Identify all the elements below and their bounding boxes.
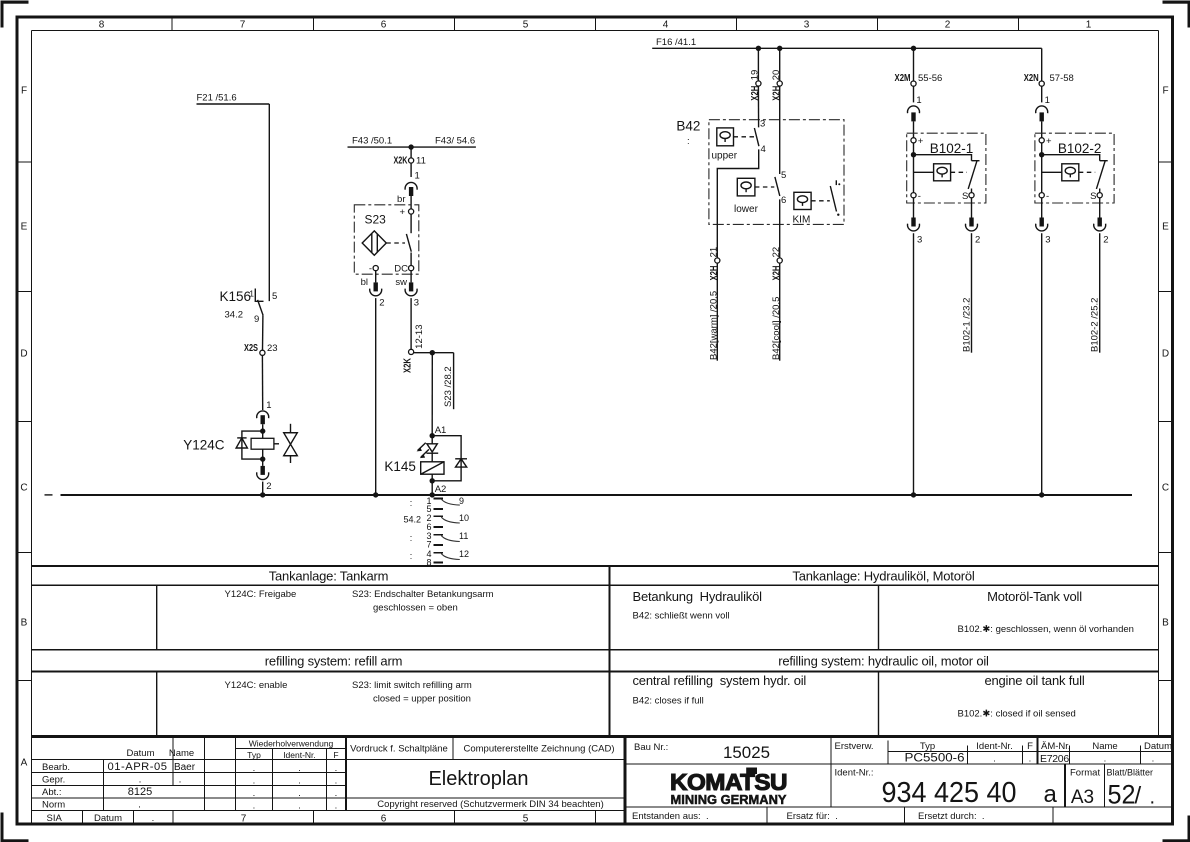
node on ground rail at S23: [373, 492, 378, 497]
solenoid coil Y124C: [183, 431, 279, 459]
svg-text:X2H: X2H: [771, 266, 782, 281]
wire X2K to node A1 branch: [414, 352, 454, 354]
bottom column numbers: [241, 814, 529, 825]
LED of K145: [417, 436, 439, 462]
svg-text:Typ: Typ: [247, 750, 261, 760]
svg-text:refilling system: refill arm: refilling system: refill arm: [265, 653, 402, 668]
left titleblock header texts: [127, 748, 195, 759]
english cell texts left: [225, 680, 472, 705]
svg-text:X2K: X2K: [394, 156, 409, 167]
svg-text:54.2: 54.2: [403, 515, 421, 525]
svg-text:C: C: [20, 483, 27, 494]
svg-text:S: S: [962, 191, 968, 202]
net stub S23/28.2: [443, 353, 454, 410]
wire node to K145 A1: [431, 353, 433, 436]
node K145 A1: [430, 425, 447, 439]
svg-text:Datum: Datum: [94, 813, 122, 824]
node Y124C A1: [260, 428, 265, 433]
svg-text:Wiederholverwendung: Wiederholverwendung: [249, 738, 334, 748]
wire X2H19 into box: [757, 86, 759, 127]
S23 enclosure dash-dot box: [354, 205, 419, 274]
net F21/51.6 source arrow: [197, 93, 270, 105]
svg-text:.: .: [335, 801, 338, 812]
socket pin 3 of B102-1: [907, 198, 922, 246]
svg-text:19: 19: [750, 70, 761, 81]
svg-text:7: 7: [426, 539, 431, 549]
svg-text:01-APR-05: 01-APR-05: [108, 761, 168, 773]
svg-text::: :: [410, 551, 413, 561]
ground rail: [60, 494, 1132, 496]
svg-text:11: 11: [416, 156, 426, 167]
svg-text:.: .: [1029, 754, 1032, 765]
svg-text:engine oil tank full: engine oil tank full: [984, 673, 1084, 688]
svg-text:KOMATSU: KOMATSU: [670, 769, 787, 795]
left row letters: [20, 86, 27, 769]
svg-text:D: D: [20, 349, 27, 360]
bottom margin band line: [32, 810, 626, 812]
S23 plus terminal: [399, 207, 413, 218]
trim mark bottom-right: [1163, 816, 1190, 842]
contact B42 upper 3-4: [754, 118, 765, 155]
svg-text:F: F: [1162, 86, 1168, 97]
svg-text:Y124C: enable: Y124C: enable: [225, 680, 288, 691]
node F16 X2M: [911, 46, 916, 51]
vordruck section: [350, 744, 614, 755]
svg-text:Datum: Datum: [1144, 741, 1172, 752]
svg-text:2: 2: [1103, 235, 1108, 246]
table verticals: [157, 566, 879, 737]
inner frame right: [1158, 31, 1160, 737]
svg-text:9: 9: [254, 314, 259, 325]
wire upper contact to X2H21: [717, 149, 758, 258]
contact B102-1 NC: [968, 161, 979, 193]
B102-2 S terminal: [1090, 191, 1102, 202]
float switch upper: [712, 128, 755, 162]
svg-text:21: 21: [709, 247, 720, 258]
svg-text:.: .: [298, 788, 301, 799]
svg-text:1: 1: [266, 400, 271, 411]
svg-text:4: 4: [761, 144, 766, 155]
svg-text:KIM: KIM: [793, 215, 811, 226]
svg-text:Gepr.: Gepr.: [42, 775, 65, 786]
relay coil K145: [384, 459, 444, 481]
svg-text:br: br: [397, 194, 405, 205]
wire X2S to Y124C plug: [261, 355, 263, 410]
svg-text:.: .: [1150, 787, 1156, 809]
trim mark bottom-left: [1, 813, 29, 842]
right row letters: [1162, 86, 1169, 629]
english cell texts right: [633, 673, 1085, 720]
svg-text:Ersatz für: .: Ersatz für: .: [787, 811, 838, 822]
svg-text:D: D: [1162, 349, 1169, 360]
svg-text:B42: schließt wenn voll: B42: schließt wenn voll: [633, 611, 730, 622]
svg-text:.: .: [1104, 754, 1107, 765]
svg-text:55-56: 55-56: [918, 73, 942, 84]
svg-text:.: .: [1152, 754, 1155, 765]
svg-text:F: F: [1027, 741, 1033, 752]
svg-text:3: 3: [917, 235, 922, 246]
svg-text:Vordruck f. Schaltpläne: Vordruck f. Schaltpläne: [350, 744, 448, 755]
svg-text:E7206: E7206: [1040, 753, 1069, 765]
svg-text:3: 3: [414, 298, 419, 309]
svg-text:2: 2: [266, 481, 271, 492]
connector X2K 12-13: [402, 324, 425, 373]
svg-text:.: .: [335, 788, 338, 799]
svg-text:Name: Name: [1092, 741, 1117, 752]
svg-text:central refilling system hydr: central refilling system hydr. oil: [633, 673, 807, 688]
svg-text:geschlossen = oben: geschlossen = oben: [373, 603, 458, 614]
svg-text:23: 23: [267, 343, 278, 354]
svg-text:B42[cool] /20.5: B42[cool] /20.5: [771, 297, 782, 360]
svg-text:B102.✱: geschlossen, wenn öl v: B102.✱: geschlossen, wenn öl vorhanden: [958, 624, 1134, 635]
node on ground rail at B102-2: [1039, 492, 1044, 497]
svg-text:B42: closes if full: B42: closes if full: [633, 696, 704, 707]
node on ground rail at Y124C: [260, 492, 265, 497]
top column numbers: [99, 20, 1092, 31]
connector X2S 23: [244, 343, 278, 356]
row values: [108, 761, 196, 810]
svg-text:Computererstellte Zeichnung (C: Computererstellte Zeichnung (CAD): [463, 744, 614, 755]
svg-text:K156: K156: [220, 289, 252, 304]
svg-text:.: .: [253, 763, 256, 774]
plug pin 1 of B102-2: [1036, 86, 1050, 138]
svg-text:12-13: 12-13: [414, 324, 425, 348]
svg-text:Tankanlage: Hydrauliköl, Motor: Tankanlage: Hydrauliköl, Motoröl: [792, 569, 975, 584]
svg-text:Ident-Nr.: Ident-Nr.: [976, 741, 1012, 752]
svg-text:S23 /28.2: S23 /28.2: [443, 366, 454, 407]
node F16 X2H20: [777, 46, 782, 51]
german cell texts left: [225, 589, 494, 614]
table header row 1: [32, 566, 1159, 585]
svg-text:57-58: 57-58: [1050, 73, 1074, 84]
svg-text:B102-1 /23.2: B102-1 /23.2: [961, 298, 972, 352]
node on ground rail at B102-1: [911, 492, 916, 497]
svg-text:.: .: [152, 813, 155, 824]
svg-text:F43/ 54.6: F43/ 54.6: [435, 136, 475, 147]
svg-text:B102-2 /25.2: B102-2 /25.2: [1090, 298, 1101, 352]
svg-text:refilling system: hydraulic oi: refilling system: hydraulic oil, motor o…: [778, 653, 989, 668]
connector X2M 55-56: [895, 73, 943, 86]
B42 enclosure dash-dot box: [709, 120, 844, 225]
svg-text:9: 9: [459, 496, 464, 506]
node K145 A2 on rail: [430, 481, 447, 498]
svg-text:Erstverw.: Erstverw.: [835, 741, 874, 752]
svg-text:20: 20: [771, 70, 782, 81]
svg-text:Betankung Hydrauliköl: Betankung Hydrauliköl: [633, 589, 763, 604]
bus F43: [348, 146, 476, 148]
wire B102-1 pin3 to ground rail: [913, 233, 915, 495]
svg-text:S23: Endschalter Betankungsarm: S23: Endschalter Betankungsarm: [352, 589, 494, 600]
TVS suppressor symbol right of Y124C: [284, 424, 298, 463]
plug pin 1 of S23: [405, 163, 420, 209]
level sensor element B102-2: [1042, 164, 1096, 181]
socket pin 2 of B102-1: [966, 198, 981, 246]
german cell texts right: [633, 589, 1134, 635]
SIA cells: [47, 811, 174, 824]
svg-text:X2H: X2H: [750, 86, 761, 101]
svg-text:.: .: [335, 776, 338, 787]
socket pin 3 of S23: [405, 271, 419, 309]
svg-text:.: .: [993, 754, 996, 765]
svg-text:Copyright reserved (Schutzverm: Copyright reserved (Schutzvermerk DIN 34…: [377, 799, 604, 810]
svg-text:Norm: Norm: [42, 800, 65, 811]
svg-text:sw: sw: [395, 277, 407, 288]
node F43 X2K: [408, 144, 413, 149]
svg-text:3: 3: [804, 20, 810, 31]
svg-text:F: F: [333, 750, 338, 760]
svg-text:a: a: [1044, 781, 1058, 808]
bau nr row: [634, 741, 1172, 765]
svg-text:.: .: [298, 801, 301, 812]
float switch lower: [734, 178, 774, 215]
wire F16 to X2H20: [779, 48, 781, 81]
svg-text:3: 3: [760, 118, 765, 129]
svg-text:-: -: [918, 191, 921, 202]
node at S23/28.2 branch: [430, 350, 435, 355]
svg-text:Abt.:: Abt.:: [42, 787, 62, 798]
wire F16 to X2H19: [757, 48, 759, 81]
svg-text:bl: bl: [361, 277, 368, 288]
svg-text:+: +: [399, 207, 405, 218]
svg-text:Motoröl-Tank voll: Motoröl-Tank voll: [987, 589, 1082, 604]
right titleblock grid: [625, 737, 1173, 825]
svg-text:X2H: X2H: [771, 86, 782, 101]
svg-text:A: A: [21, 758, 28, 769]
svg-text:B102.✱: closed if oil sensed: B102.✱: closed if oil sensed: [958, 709, 1076, 720]
svg-text:1: 1: [1086, 20, 1092, 31]
svg-text:Baer: Baer: [174, 762, 196, 773]
wire node to contact B102-1: [914, 155, 972, 161]
svg-text:Ident-Nr.:: Ident-Nr.:: [835, 768, 874, 779]
connector X2K 11: [394, 147, 426, 166]
svg-text:2: 2: [379, 298, 384, 309]
svg-text:-: -: [1046, 191, 1049, 202]
net stub B42[cool]/20.5: [771, 263, 782, 361]
net stub B42[warm]/20.5: [708, 263, 719, 361]
plug pin 1 of B102-1: [907, 86, 921, 138]
svg-text:A1: A1: [435, 425, 447, 436]
svg-text:X2H: X2H: [709, 266, 720, 281]
svg-text:5: 5: [523, 20, 529, 31]
svg-text:.: .: [138, 800, 141, 811]
node B102-2 internal: [1039, 143, 1044, 193]
svg-text:E: E: [21, 222, 28, 233]
bottom band ticks: [314, 811, 596, 824]
S23 switch contact: [406, 214, 411, 265]
svg-text:Blatt/Blätter: Blatt/Blätter: [1107, 768, 1154, 778]
svg-text:upper: upper: [712, 151, 738, 162]
svg-text:K145: K145: [384, 459, 416, 474]
float switch KIM: [793, 192, 830, 225]
svg-text:X2N: X2N: [1024, 73, 1039, 84]
svg-text:X2M: X2M: [895, 73, 911, 84]
svg-text:.: .: [298, 776, 301, 787]
svg-text:22: 22: [771, 247, 782, 258]
svg-text:.: .: [253, 801, 256, 812]
contact B102-2 NC: [1096, 161, 1107, 193]
K145 contact mirror table: [403, 496, 469, 568]
svg-text:15025: 15025: [723, 743, 770, 762]
svg-text:lower: lower: [734, 204, 759, 215]
ident nr row: [835, 768, 1156, 810]
svg-text:.: .: [253, 776, 256, 787]
svg-text:1: 1: [916, 95, 921, 106]
socket pin 2 of S23: [370, 271, 385, 309]
wire F21 to K156 contact: [268, 104, 270, 301]
svg-text:Format: Format: [1070, 768, 1100, 779]
svg-text:.: .: [253, 788, 256, 799]
svg-text:34.2: 34.2: [225, 310, 244, 321]
connector X2H 20: [771, 70, 783, 101]
svg-text:10: 10: [459, 513, 469, 523]
inner frame left: [31, 31, 33, 825]
svg-text:+: +: [918, 136, 924, 147]
svg-text:11: 11: [459, 531, 468, 541]
socket pin 3 of B102-2: [1036, 198, 1051, 246]
svg-text:PC5500-6: PC5500-6: [905, 753, 965, 765]
svg-text:B102-1: B102-1: [930, 141, 974, 156]
wire S23 pin3 to X2K 12-13: [410, 298, 412, 349]
B42 reference label: [676, 119, 700, 148]
svg-text:Y124C: Y124C: [183, 438, 225, 453]
svg-text:F21 /51.6: F21 /51.6: [197, 93, 237, 104]
svg-text:934 425 40: 934 425 40: [882, 777, 1017, 809]
contact B42 lower 5-6: [775, 170, 786, 206]
svg-text:Tankanlage: Tankarm: Tankanlage: Tankarm: [269, 569, 389, 584]
svg-text:Datum: Datum: [127, 748, 155, 759]
svg-text:Ident-Nr.: Ident-Nr.: [283, 750, 316, 760]
freewheel diode parallel to K145: [432, 436, 467, 481]
svg-text:1: 1: [249, 289, 254, 299]
B102-2 enclosure dash-dot box: [1035, 133, 1114, 203]
svg-text:Ersetzt durch: .: Ersetzt durch: .: [918, 811, 985, 822]
svg-text:12: 12: [459, 549, 469, 559]
S23 minus terminal: [369, 263, 378, 274]
wire node to contact B102-2: [1042, 155, 1100, 161]
svg-text:.: .: [139, 775, 142, 786]
svg-text:52: 52: [1108, 780, 1136, 810]
svg-text:X2S: X2S: [244, 343, 258, 354]
svg-text:Y124C: Freigabe: Y124C: Freigabe: [225, 589, 297, 600]
level sensor element B102-1: [914, 164, 968, 181]
svg-text:B102-2: B102-2: [1058, 141, 1102, 156]
wire S23 pin2 to ground rail: [375, 298, 377, 495]
suppressor diode parallel to Y124C: [236, 431, 263, 459]
svg-text:1: 1: [415, 171, 420, 182]
node K145 bottom: [430, 478, 435, 483]
svg-text:7: 7: [240, 20, 246, 31]
socket pin 2 of B102-2: [1094, 198, 1109, 246]
svg-text:2: 2: [945, 20, 951, 31]
B102-1 S terminal: [962, 191, 974, 202]
svg-text:+: +: [1046, 136, 1052, 147]
svg-text:8125: 8125: [128, 786, 152, 798]
connector X2H 19: [750, 70, 762, 101]
svg-text:Bau Nr.:: Bau Nr.:: [634, 742, 668, 753]
svg-text:6: 6: [381, 20, 387, 31]
S23 DC terminal: [394, 263, 413, 274]
svg-text:A2: A2: [435, 484, 447, 495]
svg-text:F16 /41.1: F16 /41.1: [656, 37, 696, 48]
svg-text:Bearb.: Bearb.: [42, 762, 70, 773]
node F16 X2H19: [756, 46, 761, 51]
trim mark top-right: [1163, 1, 1190, 28]
svg-text:SIA: SIA: [47, 813, 63, 824]
svg-text:Entstanden aus: .: Entstanden aus: .: [632, 811, 709, 822]
svg-text::: :: [410, 498, 413, 508]
B102-2 minus terminal: [1039, 191, 1049, 202]
svg-text:E: E: [1162, 222, 1169, 233]
svg-text:.: .: [335, 763, 338, 774]
trim mark top-left: [1, 1, 29, 28]
svg-text:S23: S23: [365, 213, 387, 227]
contact B42 KIM: [830, 180, 840, 216]
left band ticks: [17, 162, 32, 681]
svg-text:A3: A3: [1071, 787, 1094, 808]
B102-2 plus terminal: [1039, 136, 1052, 147]
wire B102-2 pin3 to ground rail: [1041, 233, 1043, 495]
svg-text:B42[warm] /20.5: B42[warm] /20.5: [708, 291, 719, 360]
wire F16 to X2M: [913, 48, 915, 81]
svg-text:B: B: [1162, 618, 1169, 629]
B102-1 enclosure dash-dot box: [907, 133, 986, 203]
svg-text:F43 /50.1: F43 /50.1: [352, 136, 392, 147]
svg-text:5: 5: [272, 291, 277, 302]
svg-text::: :: [687, 136, 690, 147]
bus F16: [652, 47, 1041, 49]
svg-text:8: 8: [99, 20, 105, 31]
wire K156 to X2S: [262, 315, 264, 350]
title block outline: [17, 737, 1173, 825]
row labels: [42, 762, 70, 811]
svg-text:-: -: [369, 263, 372, 274]
svg-text:/: /: [1135, 783, 1142, 810]
wire F16 to X2N: [1041, 48, 1043, 81]
plug pin 1 of Y124C: [257, 400, 272, 431]
node B102-1 internal: [911, 143, 916, 193]
wiederholverwendung dots: [253, 763, 338, 812]
svg-text:DC: DC: [394, 263, 408, 274]
wiederholverwendung header: [247, 738, 338, 760]
svg-text:Name: Name: [169, 748, 194, 759]
table header row 2: [32, 650, 1159, 672]
svg-text:Typ: Typ: [920, 741, 935, 752]
svg-text:F: F: [21, 86, 27, 97]
left titleblock grid: [32, 737, 626, 811]
net stub B102-1/23.2: [961, 233, 972, 353]
wire X2H20 through lower contact to X2H22: [779, 86, 781, 258]
svg-text:6: 6: [781, 195, 786, 206]
komatsu logo: [670, 768, 787, 808]
svg-text:.: .: [179, 775, 182, 786]
svg-text:4: 4: [663, 20, 669, 31]
bottom row texts: [632, 811, 985, 822]
inner frame top: [32, 30, 1159, 32]
svg-text:MINING GERMANY: MINING GERMANY: [671, 793, 788, 807]
relay contact K156 5-9: [220, 289, 278, 326]
svg-text:C: C: [1162, 483, 1169, 494]
svg-text:S: S: [1090, 191, 1096, 202]
svg-text:B: B: [21, 618, 28, 629]
connector X2H 21: [709, 247, 720, 281]
top band ticks: [172, 17, 1019, 31]
svg-text::: :: [410, 533, 413, 543]
net stub B102-2/25.2: [1090, 233, 1101, 353]
svg-text:B42: B42: [676, 119, 700, 134]
svg-text:1: 1: [1045, 95, 1050, 106]
svg-text:3: 3: [1045, 235, 1050, 246]
socket pin 2 of Y124C: [257, 459, 272, 495]
